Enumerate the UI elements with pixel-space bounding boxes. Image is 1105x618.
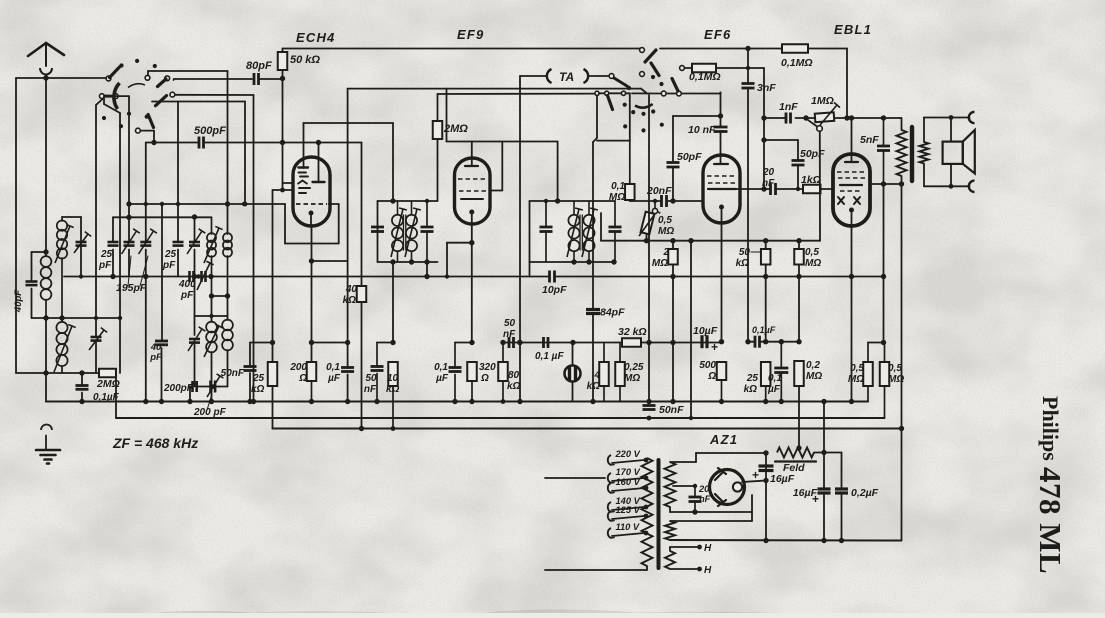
pot wiper circle: [817, 126, 823, 132]
wire IF1 bottom: [378, 261, 438, 263]
capacitor 50pF EBL: [792, 159, 805, 162]
svg-text:Ω: Ω: [298, 373, 307, 384]
switch wafer2 stud5: [641, 112, 645, 116]
wire x596 lower: [592, 314, 594, 402]
svg-text:nF: nF: [503, 329, 516, 340]
wire y342 group C: [377, 342, 393, 344]
node rail x596: [590, 399, 595, 404]
svg-text:4: 4: [593, 370, 600, 381]
wire AZ1 filament out: [742, 481, 766, 483]
svg-text:500pF: 500pF: [194, 125, 226, 137]
core IF1: [403, 215, 405, 250]
tap 125 V: [608, 511, 611, 521]
wire rail3: [273, 428, 902, 430]
capacitor 0.1uF dec2: [774, 367, 788, 370]
coil L5 osc B: [223, 233, 232, 242]
wire 3nF upper: [747, 49, 749, 84]
wire 1nF left: [764, 117, 783, 119]
wire y217 osc row: [113, 216, 212, 218]
wire antenna downlead: [45, 78, 47, 252]
wire IF1 coil stubs: [397, 201, 399, 214]
node IF1 top x393: [390, 198, 395, 203]
wire y142 osc line: [146, 142, 199, 144]
symbol TA parens: [547, 69, 552, 83]
electrode AZ1 anode2: [715, 494, 723, 502]
wire coil L3 leads: [61, 217, 63, 221]
decor bottom smudge: [145, 611, 265, 618]
wire 2M avc top: [437, 94, 439, 121]
node speaker top: [949, 115, 954, 120]
wire OT primary top: [899, 117, 902, 119]
svg-text:200 pF: 200 pF: [193, 407, 227, 418]
switch wafer1 contact e: [113, 94, 118, 99]
wire x752: [751, 495, 753, 521]
capacitor 10uF electrolytic: [700, 335, 703, 348]
svg-text:MΩ: MΩ: [609, 192, 625, 203]
resistor 0.1MOhm switch: [692, 64, 716, 73]
node IF1 bot x393: [390, 259, 395, 264]
svg-text:500: 500: [699, 360, 716, 371]
wire osc coil bottoms: [211, 256, 213, 296]
switch wafer1 contact f: [170, 92, 175, 97]
switch wafer2 stud2: [659, 82, 663, 86]
svg-text:µF: µF: [435, 373, 449, 384]
wire y373 bus: [16, 372, 99, 374]
wire ECH4 osc grid top: [304, 122, 394, 124]
node rail x472: [469, 399, 474, 404]
node rail x781: [779, 399, 784, 404]
wire y512: [670, 511, 752, 513]
svg-text:0,5: 0,5: [805, 247, 819, 258]
node y342 x649: [646, 340, 651, 345]
tube EF6: [703, 155, 740, 223]
wire speaker bottom: [923, 164, 925, 187]
core IF2: [579, 215, 581, 250]
electrode EBL1 anode: [840, 184, 862, 186]
svg-text:µF: µF: [767, 384, 781, 395]
wire TA left: [520, 75, 546, 77]
node tap x695: [693, 484, 697, 488]
resistor 40kOhm: [357, 286, 367, 302]
wire x46 to rail: [45, 318, 47, 373]
svg-text:ECH4: ECH4: [296, 30, 335, 45]
node bus x113: [110, 274, 115, 279]
switch wafer1 contact g: [136, 128, 141, 133]
coil L4 osc A: [207, 233, 216, 242]
node rail x311: [309, 399, 314, 404]
svg-text:MΩ: MΩ: [806, 371, 822, 382]
wire x146 to rail: [145, 277, 147, 402]
wire pot bottom: [646, 234, 648, 241]
svg-text:0,1: 0,1: [768, 373, 782, 384]
wire x162: [161, 204, 163, 340]
switch wafer2 stud1: [651, 75, 655, 79]
wire 25pF b leads: [177, 102, 179, 243]
node y204 x146: [144, 202, 148, 206]
capacitor 50nF a: [244, 365, 257, 368]
wire bus y276 left: [64, 276, 550, 278]
wire heater top: [670, 546, 697, 548]
node rail x649: [646, 399, 651, 404]
wire y342 left pair: [312, 342, 348, 344]
node y342 x393: [390, 340, 395, 345]
resistor 10kOhm: [388, 362, 398, 386]
resistor 200Ohm: [307, 362, 317, 381]
wire y116: [673, 115, 721, 117]
wire TA right: [589, 75, 609, 77]
node grid y190: [280, 188, 285, 193]
resistor 0.2MOhm: [794, 361, 804, 386]
trimmer arrow coil L2: [54, 326, 72, 372]
capacitor inline osc a: [188, 271, 191, 282]
svg-text:320: 320: [479, 362, 496, 373]
capacitor 0.1uF dec: [754, 336, 757, 348]
wire x824 16uF: [823, 402, 825, 489]
terminal H1: [697, 545, 702, 550]
wire mains top: [545, 477, 605, 479]
node y296 x228: [225, 293, 230, 298]
svg-text:0,2µF: 0,2µF: [851, 487, 879, 499]
node y540 x824: [821, 538, 826, 543]
wire wafer1 y101: [152, 101, 245, 103]
capacitor trimmer lower osc: [189, 338, 200, 341]
switch wafer2 stud3: [623, 103, 627, 107]
wire y342 main: [503, 342, 722, 344]
node y142 x154: [151, 140, 156, 145]
svg-text:H: H: [704, 543, 712, 554]
resistor 25kOhm IF: [268, 362, 278, 386]
svg-text:25: 25: [164, 249, 177, 260]
svg-text:3nF: 3nF: [757, 82, 776, 94]
wire 50nF drop: [249, 343, 251, 367]
wire 50pF drop: [672, 116, 674, 162]
svg-text:160 V: 160 V: [616, 477, 641, 487]
node y342 x620: [619, 341, 621, 343]
wire x282 down: [282, 79, 284, 143]
node coil top: [43, 249, 48, 254]
switch wafer2 lever a: [672, 79, 678, 92]
node y343 x347: [345, 340, 350, 345]
electrode EBL1 grids: [837, 171, 866, 173]
wire HT top: [670, 461, 696, 463]
wire x883 lower: [883, 184, 885, 343]
trimmer arrow IF2s: [582, 209, 594, 257]
core mains transformer: [657, 460, 661, 568]
node x272 y342: [270, 340, 275, 345]
wire coil L2 leads: [61, 318, 63, 322]
wire 0.5M leads: [798, 241, 800, 249]
svg-text:µF: µF: [327, 373, 341, 384]
coil IF2 primary: [568, 215, 579, 226]
capacitor IF2 left: [540, 226, 553, 229]
core output transformer: [910, 127, 914, 181]
wire heater bottom: [670, 568, 697, 570]
switch wafer1 rotor arc left: [114, 83, 120, 109]
svg-text:170 V: 170 V: [616, 467, 641, 477]
node bus x146: [143, 274, 148, 279]
svg-text:2: 2: [662, 247, 669, 258]
wire TA box: [629, 93, 631, 140]
wire x765 mid: [765, 277, 767, 342]
svg-text:478 ML: 478 ML: [1033, 467, 1068, 574]
svg-text:25: 25: [252, 373, 265, 384]
svg-text:0,5: 0,5: [850, 363, 864, 374]
wire det secondary drop: [600, 213, 602, 241]
trimmer arrow IF2p: [567, 209, 579, 257]
svg-text:EBL1: EBL1: [834, 22, 872, 37]
switch wafer2 contact b: [640, 48, 645, 53]
svg-text:50 kΩ: 50 kΩ: [290, 54, 320, 66]
capacitor 20nF grid: [660, 195, 663, 207]
electrode EF6 top bar: [714, 163, 728, 165]
resistor 0.1MOhm det: [625, 184, 635, 200]
node bus x447: [445, 274, 449, 278]
node det x691: [688, 238, 693, 243]
wire x194 lower: [194, 277, 196, 336]
wire 2M to rail2: [115, 373, 117, 418]
node rail x190: [187, 399, 192, 404]
svg-text:50nF: 50nF: [659, 404, 684, 416]
wire OT primary bottom: [901, 176, 903, 184]
switch wafer2 lever e: [608, 96, 613, 110]
switch wafer2 contact c: [640, 72, 645, 77]
node rail x520: [517, 399, 522, 404]
wire 50pF to grid: [672, 167, 674, 201]
switch wafer2 contact a: [661, 91, 666, 96]
svg-text:1nF: 1nF: [779, 101, 798, 113]
switch wafer2 lever b: [645, 50, 656, 62]
svg-text:pF: pF: [149, 352, 162, 363]
wire HT center tap: [673, 485, 695, 487]
node IF2 top x546: [544, 199, 548, 203]
antenna: [28, 43, 46, 56]
wire fil top: [670, 520, 752, 522]
wire x361 drop: [361, 143, 363, 287]
wire EF9 cathode down: [471, 224, 473, 343]
wire x596 drop: [596, 95, 598, 138]
node y204 x178: [176, 202, 180, 206]
wire y386 200pF: [190, 386, 192, 388]
transformer output secondary: [920, 142, 929, 164]
wire 0.1uF to rail: [81, 393, 83, 402]
wire y92 right: [681, 93, 720, 95]
wire y118: [796, 117, 900, 119]
capacitor 20nF EBL: [769, 183, 772, 195]
svg-text:kΩ: kΩ: [343, 295, 357, 306]
svg-text:50pF: 50pF: [800, 148, 825, 160]
wire wafer1 to osc drop: [103, 98, 105, 104]
wire EF9 grid riser: [446, 89, 448, 142]
switch wafer2 stud7: [660, 123, 664, 127]
wire 40k to rail3: [361, 302, 363, 429]
wire IF1 right up: [437, 140, 439, 201]
switch wafer1 lever f: [156, 96, 167, 106]
resistor 320Ohm: [467, 362, 477, 381]
resistor 32kOhm: [622, 338, 641, 347]
tap 160 V: [608, 483, 611, 493]
electrode ECH4 top lead R: [318, 143, 320, 183]
resistor 1kOhm: [803, 185, 821, 194]
node IF2 bot x589: [586, 259, 591, 264]
svg-text:20nF: 20nF: [646, 185, 672, 197]
svg-text:nF: nF: [762, 178, 775, 189]
svg-text:0,2: 0,2: [806, 360, 820, 371]
trimmer arrow L4: [204, 228, 219, 263]
tube EF9: [455, 158, 491, 224]
coil L6 lower osc A: [206, 322, 217, 333]
wire wafer1 contact b drop: [96, 99, 103, 106]
wire bus top right: [660, 48, 782, 50]
svg-text:16µF: 16µF: [793, 487, 818, 499]
switch wafer1 stud 7: [102, 116, 106, 120]
node rail x765: [763, 399, 768, 404]
svg-text:0,1 µF: 0,1 µF: [535, 351, 564, 362]
wire x393 to y342: [392, 262, 394, 343]
node y118 x883: [881, 115, 886, 120]
svg-text:MΩ: MΩ: [652, 258, 668, 269]
wire IF1 top: [378, 200, 438, 202]
wire ground rail1: [46, 401, 868, 403]
wire rail2: [116, 417, 885, 419]
electrode EF6 grids: [707, 175, 736, 177]
wire wafer1 y96 to x253: [175, 94, 254, 96]
node y204 x245: [243, 202, 248, 207]
wire wafer1 y130 to osc: [140, 130, 154, 132]
capacitor 10nF: [714, 126, 728, 129]
svg-text:10µF: 10µF: [693, 325, 718, 337]
svg-text:16µF: 16µF: [770, 473, 795, 485]
svg-text:10pF: 10pF: [542, 284, 567, 296]
wire 25pF a leads: [112, 217, 114, 242]
capacitor 0.1uF mid: [542, 337, 545, 348]
wire EBL1 anode out: [870, 183, 899, 185]
wire y88 jog: [641, 89, 647, 94]
potentiometer 0.5MOhm: [641, 212, 655, 235]
node rail x250: [247, 399, 252, 404]
wire var osc leads: [194, 217, 196, 242]
node bus x748: [745, 46, 750, 51]
capacitor 64pF: [586, 308, 600, 311]
wire y93 mid: [666, 93, 676, 95]
node IF1 bot x427: [424, 259, 429, 264]
wire y316 lower osc: [195, 315, 228, 317]
switch wafer2 contact d: [680, 66, 685, 71]
switch wafer1 contact a: [106, 76, 111, 81]
resistor 80kOhm: [498, 362, 508, 381]
node feld tap: [796, 445, 801, 450]
node rail x377: [374, 399, 379, 404]
pin AZ1 filament: [733, 482, 742, 491]
capacitor IF1 right: [421, 226, 434, 229]
node det x673: [670, 238, 675, 243]
svg-text:kΩ: kΩ: [507, 381, 521, 392]
svg-text:195pF: 195pF: [116, 282, 147, 294]
tube AZ1: [710, 470, 745, 505]
node y341 x748: [745, 339, 750, 344]
capacitor 40pF (antenna): [26, 280, 38, 283]
capacitor 0.1uF EF9: [449, 366, 462, 369]
node y217 x129: [126, 215, 131, 220]
node IF1 bot x411: [409, 259, 414, 264]
capacitor 200pF variable: [209, 381, 212, 393]
resistor 2MOhm AVC: [433, 121, 443, 139]
node rail3 x361: [359, 426, 364, 431]
coil antenna L1: [41, 256, 52, 267]
wire lamp leads: [572, 343, 574, 366]
wire x393 drop: [392, 123, 394, 201]
node rail x721: [719, 399, 724, 404]
coil IF1 primary: [392, 215, 403, 226]
node bus x673: [670, 274, 675, 279]
wire anode drop long: [901, 184, 903, 541]
svg-text:0,5: 0,5: [888, 363, 902, 374]
svg-text:0,1MΩ: 0,1MΩ: [781, 57, 813, 69]
wire var b leads: [145, 143, 147, 243]
svg-text:5nF: 5nF: [860, 134, 879, 146]
capacitor 200pF fixed: [191, 381, 194, 392]
svg-text:nF: nF: [364, 384, 377, 395]
wire ECH4 cathode down: [311, 226, 313, 362]
svg-text:25: 25: [746, 373, 759, 384]
switch wafer2 stud6: [651, 109, 655, 113]
svg-text:ZF = 468 kHz: ZF = 468 kHz: [112, 435, 198, 451]
electrode EBL1 top lead: [851, 118, 853, 162]
switch wafer1 stud 1: [119, 63, 123, 67]
node y342 x573: [570, 340, 575, 345]
node y342 x472: [469, 340, 474, 345]
switch wafer2 lever c: [651, 63, 659, 76]
svg-text:kΩ: kΩ: [744, 384, 758, 395]
wire 0.1M switch: [685, 67, 693, 69]
wire x213 down: [211, 296, 213, 322]
switch wafer2 contact a2: [677, 91, 682, 96]
svg-text:25: 25: [100, 249, 113, 260]
node rail x253: [251, 399, 256, 404]
node rail3 x393: [391, 426, 396, 431]
node coil L2 top: [59, 315, 64, 320]
wire y342 EBL pair: [868, 342, 884, 344]
wire y79 switch to cap: [173, 79, 176, 80]
capacitor variable 195pF b: [140, 241, 151, 244]
node IF1 top x427: [425, 199, 429, 203]
svg-text:MΩ: MΩ: [805, 258, 821, 269]
wire y93 TA row: [599, 92, 605, 94]
wire x691 drop: [690, 241, 692, 418]
svg-text:MΩ: MΩ: [624, 373, 640, 384]
node rail2 x649: [647, 416, 652, 421]
ground symbol: [36, 449, 60, 452]
node x764 y140: [761, 137, 766, 142]
node x748 y68: [746, 66, 750, 70]
node 50k junction: [280, 76, 285, 81]
trimmer arrow L6: [204, 326, 219, 357]
wire y204: [129, 203, 285, 205]
wire x228 down: [227, 296, 229, 320]
wire IF2 coil stubs: [573, 201, 575, 214]
svg-text:80: 80: [508, 370, 520, 381]
node y540 x841: [839, 538, 844, 543]
svg-text:50nF: 50nF: [221, 368, 245, 379]
capacitor 20nF PSU: [689, 496, 702, 499]
switch wafer2 stud9: [623, 124, 627, 128]
node EF9 cath junction: [469, 240, 474, 245]
switch wafer2 contact e: [595, 91, 599, 95]
capacitor trimmer 95: [91, 336, 102, 339]
electrode EF9 top lead: [471, 142, 473, 167]
svg-text:kΩ: kΩ: [386, 384, 400, 395]
wire feld right: [814, 452, 842, 454]
node IF2 bot x614: [611, 259, 616, 264]
